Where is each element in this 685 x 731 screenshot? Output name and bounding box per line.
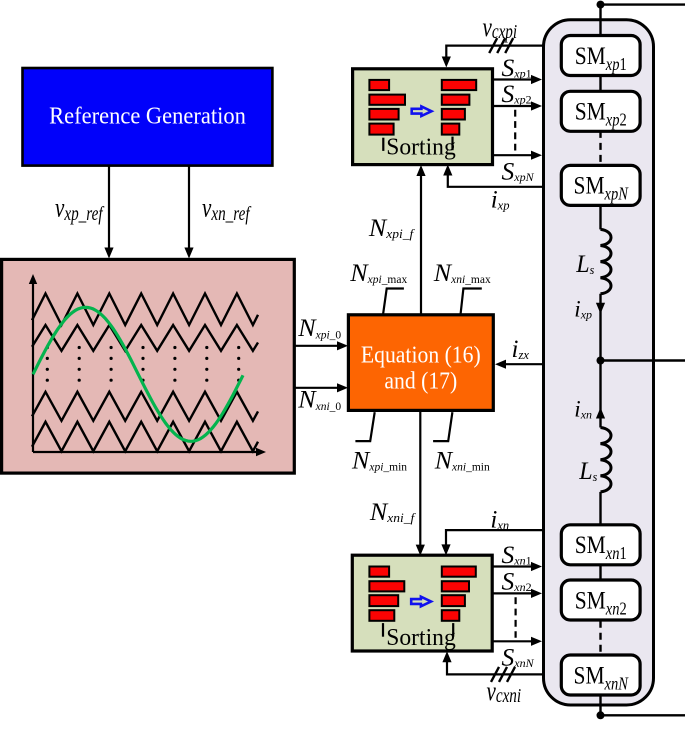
svg-text:Equation (16): Equation (16) [361, 341, 481, 369]
svg-text:Reference Generation: Reference Generation [49, 103, 246, 130]
svg-text:Sorting: Sorting [386, 624, 455, 652]
svg-text:and (17): and (17) [384, 367, 457, 395]
svg-text:Sorting: Sorting [386, 133, 455, 161]
